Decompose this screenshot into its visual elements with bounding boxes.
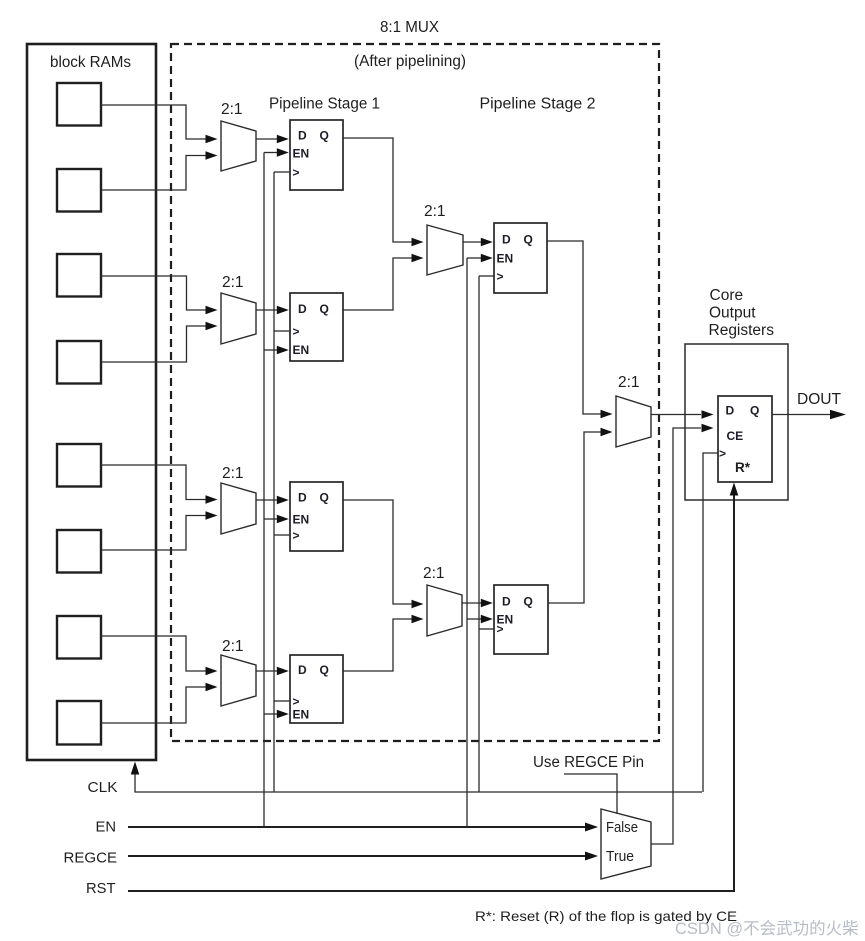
svg-text:(After pipelining): (After pipelining) — [354, 53, 466, 70]
wire mux M7 output to FF7 D — [651, 410, 714, 418]
svg-text:Output: Output — [709, 305, 756, 322]
wire EN bus to FF4 EN — [264, 710, 289, 718]
svg-text:EN: EN — [293, 147, 310, 161]
svg-text:D: D — [502, 595, 511, 609]
block RAM 8 — [57, 701, 101, 745]
svg-text:DOUT: DOUT — [797, 391, 842, 408]
wire FF6 Q to mux M7 input 1 — [548, 428, 613, 603]
svg-text:REGCE: REGCE — [64, 850, 118, 867]
flip-flop FF6 — [494, 585, 548, 654]
flip-flop FF2 — [290, 293, 343, 361]
svg-text:2:1: 2:1 — [423, 565, 445, 582]
wire DOUT — [772, 410, 846, 420]
svg-text:Q: Q — [750, 404, 759, 418]
svg-text:>: > — [293, 529, 300, 543]
svg-text:D: D — [298, 491, 307, 505]
svg-text:D: D — [298, 302, 307, 316]
svg-text:Pipeline Stage 1: Pipeline Stage 1 — [269, 96, 380, 113]
block RAM 6 — [57, 530, 101, 573]
svg-text:Q: Q — [320, 491, 329, 505]
wire CLK bus to FF4 clock — [274, 700, 290, 702]
wire CLK to FF7 clock — [703, 453, 718, 792]
svg-text:Pipeline Stage 2: Pipeline Stage 2 — [480, 96, 596, 113]
svg-text:>: > — [719, 447, 726, 461]
wire mux M5 output to FF5 D — [463, 238, 493, 246]
mux M2 2:1 — [221, 274, 256, 344]
svg-text:R*: R* — [735, 460, 751, 475]
mux M1 2:1 — [221, 101, 256, 171]
wire EN bus to FF2 EN — [264, 346, 289, 354]
mux M5 2:1 — [424, 203, 463, 275]
label Core Output Registers — [709, 287, 775, 339]
svg-text:EN: EN — [497, 252, 514, 266]
svg-text:Q: Q — [320, 129, 329, 143]
block RAM 3 — [57, 254, 101, 297]
svg-text:CSDN @不会武功的火柴: CSDN @不会武功的火柴 — [675, 919, 859, 938]
wire CLK bus to FF2 clock — [274, 330, 290, 332]
wire block RAM 5 to mux M3 input 0 — [101, 465, 218, 504]
wire mux M3 output to FF3 D — [256, 496, 289, 504]
svg-text:Q: Q — [524, 233, 533, 247]
svg-text:Q: Q — [524, 595, 533, 609]
wire FF5 Q to mux M7 input 0 — [547, 241, 613, 418]
CLK bus stage 2 vertical — [478, 276, 480, 792]
wire CLK bus stage2 to FF5 clock — [479, 275, 494, 277]
svg-text:RST: RST — [86, 880, 116, 897]
mux M4 2:1 — [221, 638, 256, 706]
wire block RAM 1 to mux M1 input 0 — [101, 105, 218, 143]
svg-text:Registers: Registers — [709, 322, 775, 339]
svg-text:EN: EN — [293, 708, 310, 722]
svg-text:>: > — [497, 270, 504, 284]
block RAM 1 — [57, 83, 101, 126]
svg-text:2:1: 2:1 — [221, 101, 243, 118]
wire mux M6 output to FF6 D — [462, 599, 493, 607]
svg-text:2:1: 2:1 — [222, 638, 244, 655]
wire block RAM 8 to mux M4 input 1 — [101, 683, 218, 723]
wire CLK bus to FF3 clock — [274, 534, 290, 536]
EN bus stage 1 vertical — [263, 153, 265, 828]
svg-text:block RAMs: block RAMs — [50, 54, 131, 71]
svg-text:CE: CE — [727, 429, 744, 443]
wire mux M2 output to FF2 D — [256, 306, 289, 314]
wire block RAM 6 to mux M3 input 1 — [101, 511, 218, 550]
svg-text:2:1: 2:1 — [222, 465, 244, 482]
svg-text:EN: EN — [293, 513, 310, 527]
svg-text:EN: EN — [96, 819, 117, 836]
svg-text:Core: Core — [710, 287, 744, 304]
svg-text:Q: Q — [320, 302, 329, 316]
svg-text:2:1: 2:1 — [424, 203, 446, 220]
dashed 8:1 MUX boundary box — [171, 44, 659, 741]
svg-text:>: > — [293, 166, 300, 180]
wire mux M4 output to FF4 D — [256, 667, 289, 675]
svg-text:2:1: 2:1 — [618, 374, 640, 391]
block RAM 5 — [57, 444, 101, 487]
wire CLK — [131, 762, 702, 793]
svg-text:False: False — [606, 820, 638, 836]
wire RST to FF7 R — [128, 483, 738, 892]
wire FF3 Q to mux M6 input 0 — [343, 500, 424, 608]
Core Output Registers enclosure — [685, 344, 788, 500]
wire CLK bus stage2 to FF6 clock — [479, 628, 494, 630]
wire CLK bus to FF1 clock — [274, 171, 290, 173]
flip-flop FF7 output register — [718, 396, 772, 482]
mux M8 REGCE False/True — [601, 809, 651, 879]
wire FF4 Q to mux M6 input 1 — [343, 615, 424, 671]
CLK bus stage 1 vertical — [273, 172, 275, 792]
wire REGCE pin select to mux M8 — [564, 774, 617, 814]
wire FF1 Q to mux M5 input 0 — [343, 138, 424, 246]
wire block RAM 4 to mux M2 input 1 — [101, 322, 218, 362]
block RAMs enclosure — [27, 44, 156, 760]
svg-text:D: D — [298, 129, 307, 143]
EN bus stage 2 vertical — [466, 258, 468, 827]
mux M6 2:1 — [423, 565, 462, 636]
block RAM 2 — [57, 169, 101, 212]
block RAM 7 — [57, 616, 101, 659]
svg-text:D: D — [298, 663, 307, 677]
svg-text:Q: Q — [320, 663, 329, 677]
wire EN to mux M8 False input — [128, 823, 598, 832]
svg-text:>: > — [293, 325, 300, 339]
wire block RAM 2 to mux M1 input 1 — [101, 151, 218, 190]
svg-text:2:1: 2:1 — [222, 274, 244, 291]
wire block RAM 7 to mux M4 input 0 — [101, 636, 218, 675]
svg-text:True: True — [606, 849, 634, 865]
svg-text:EN: EN — [293, 343, 310, 357]
wire EN bus stage2 to FF5 EN — [467, 254, 493, 262]
wire mux M1 output to FF1 D — [256, 135, 289, 143]
wire EN bus to FF1 EN — [264, 148, 289, 156]
mux M3 2:1 — [221, 465, 256, 534]
flip-flop FF3 — [290, 482, 343, 551]
wire REGCE mux output to FF7 CE — [651, 424, 714, 844]
svg-text:8:1 MUX: 8:1 MUX — [380, 19, 440, 36]
wire FF2 Q to mux M5 input 1 — [343, 254, 424, 310]
mux M7 2:1 — [616, 374, 651, 447]
wire block RAM 3 to mux M2 input 0 — [101, 276, 218, 314]
block RAM 4 — [57, 341, 101, 384]
wire EN bus to FF3 EN — [264, 515, 289, 523]
wire REGCE to mux M8 True input — [128, 852, 598, 861]
svg-text:CLK: CLK — [88, 779, 118, 796]
svg-text:D: D — [502, 233, 511, 247]
svg-text:>: > — [293, 695, 300, 709]
svg-text:Use REGCE Pin: Use REGCE Pin — [533, 754, 644, 771]
flip-flop FF1 — [290, 120, 343, 190]
wire EN bus stage2 to FF6 EN — [467, 615, 493, 623]
svg-text:>: > — [497, 622, 504, 636]
flip-flop FF5 — [494, 223, 547, 293]
flip-flop FF4 — [290, 655, 343, 723]
svg-text:D: D — [726, 404, 735, 418]
